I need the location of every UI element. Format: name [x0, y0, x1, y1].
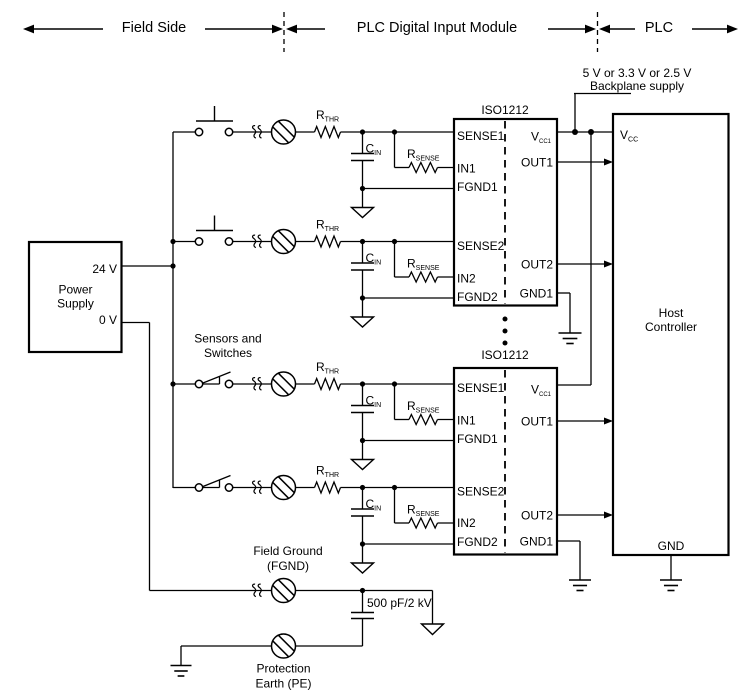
svg-text:Field Side: Field Side: [122, 20, 186, 36]
svg-text:0 V: 0 V: [99, 313, 117, 327]
svg-text:OUT1: OUT1: [521, 415, 553, 429]
svg-text:FGND2: FGND2: [457, 290, 498, 304]
svg-text:SENSE2: SENSE2: [457, 239, 505, 253]
svg-text:24 V: 24 V: [92, 262, 117, 276]
svg-text:IN2: IN2: [457, 516, 476, 530]
svg-text:FGND1: FGND1: [457, 180, 498, 194]
svg-text:Backplane supply: Backplane supply: [590, 79, 684, 93]
svg-text:ISO1212: ISO1212: [481, 348, 529, 362]
svg-text:ISO1212: ISO1212: [481, 103, 529, 117]
svg-text:SENSE1: SENSE1: [457, 381, 505, 395]
svg-text:SENSE1: SENSE1: [457, 129, 505, 143]
svg-text:Controller: Controller: [645, 320, 697, 334]
svg-text:FGND1: FGND1: [457, 432, 498, 446]
svg-text:Field Ground: Field Ground: [253, 544, 322, 558]
svg-text:SENSE2: SENSE2: [457, 485, 505, 499]
svg-text:GND1: GND1: [520, 535, 554, 549]
svg-text:Protection: Protection: [256, 662, 310, 676]
svg-text:OUT2: OUT2: [521, 258, 553, 272]
svg-text:Supply: Supply: [57, 297, 94, 311]
svg-text:(FGND): (FGND): [267, 559, 309, 573]
svg-text:Earth (PE): Earth (PE): [255, 677, 311, 691]
svg-text:FGND2: FGND2: [457, 535, 498, 549]
svg-text:OUT1: OUT1: [521, 156, 553, 170]
svg-text:GND1: GND1: [520, 287, 554, 301]
svg-text:PLC Digital Input Module: PLC Digital Input Module: [357, 20, 517, 36]
svg-text:GND: GND: [658, 539, 685, 553]
svg-text:IN1: IN1: [457, 414, 476, 428]
svg-text:5 V or 3.3 V or 2.5 V: 5 V or 3.3 V or 2.5 V: [583, 66, 692, 80]
svg-text:IN1: IN1: [457, 162, 476, 176]
svg-text:PLC: PLC: [645, 20, 673, 36]
svg-text:IN2: IN2: [457, 272, 476, 286]
svg-text:OUT2: OUT2: [521, 509, 553, 523]
svg-text:Host: Host: [659, 306, 684, 320]
svg-text:Switches: Switches: [204, 346, 252, 360]
svg-text:Sensors and: Sensors and: [194, 332, 261, 346]
svg-text:500 pF/2 kV: 500 pF/2 kV: [367, 596, 432, 610]
svg-text:Power: Power: [58, 283, 92, 297]
